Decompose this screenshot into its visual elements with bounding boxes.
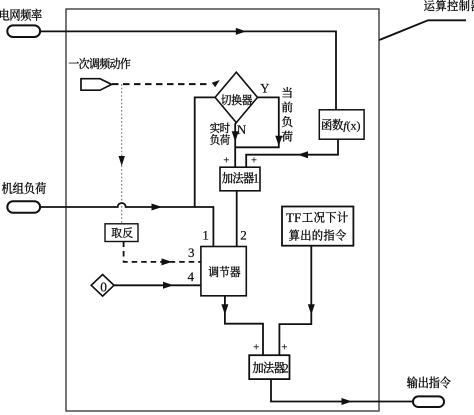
- block 取反 (negation): [105, 224, 138, 242]
- label 实时负荷: [210, 122, 220, 133]
- wire: 机组负荷 to 调节器 input 1 (hops over dotted wire): [40, 203, 213, 247]
- block TF工况下计算出的指令 (command computed under TF condition): [282, 207, 353, 246]
- svg-text:1: 1: [202, 228, 209, 243]
- constant diamond 0: [91, 275, 114, 297]
- wire: 加法器2 to 输出指令 terminal: [271, 379, 413, 401]
- svg-text:+: +: [251, 156, 257, 167]
- label 机组负荷: [2, 182, 12, 194]
- wire: 0 to 调节器 input 4: [114, 284, 201, 286]
- block 加法器1 (adder 1): [220, 167, 260, 191]
- svg-text:+: +: [223, 155, 229, 166]
- label 当前负荷 (vertical): [282, 87, 291, 98]
- label 运算控制器: [424, 0, 434, 11]
- switch diamond 切换器: [215, 72, 257, 122]
- wire: 函数f(x) output to 加法器1: [246, 139, 338, 167]
- wire: 加法器1 output to 调节器 input 2: [236, 191, 238, 247]
- svg-text:0: 0: [100, 280, 107, 295]
- svg-text:TF: TF: [286, 210, 301, 225]
- svg-text:2: 2: [240, 228, 247, 243]
- label 一次调频动作: [69, 62, 79, 63]
- flag terminal 一次调频动作 (primary frequency regulation action): [81, 79, 112, 91]
- leader line from 运算控制器 label to boundary: [379, 20, 466, 40]
- dotted wire: 一次调频动作 branch down to 取反: [121, 84, 123, 224]
- svg-text:3: 3: [188, 245, 195, 260]
- terminal oval 输出指令 (output command): [413, 396, 444, 407]
- wire: N branch 实时负荷 down to 加法器1: [235, 123, 236, 168]
- svg-text:4: 4: [188, 269, 195, 284]
- wire: 调节器 output to 加法器2 left input: [225, 296, 263, 355]
- wire: TF block output to 加法器2 right input: [279, 246, 311, 356]
- block 函数f(x): [319, 110, 364, 139]
- block 加法器2 (adder 2): [249, 355, 289, 379]
- dashed wire: 一次调频动作 to 切换器 control input: [112, 83, 211, 85]
- svg-text:1: 1: [253, 171, 259, 186]
- svg-text:f(x): f(x): [343, 118, 360, 132]
- svg-text:N: N: [237, 122, 247, 137]
- wire: 实时负荷 branch up to 切换器 left vertex: [195, 97, 215, 207]
- boundary box of 运算控制器 (computing controller outline): [66, 9, 379, 411]
- label 输出指令: [407, 376, 418, 388]
- svg-text:Y: Y: [260, 81, 269, 95]
- wire: 电网频率 to 函数f(x) input: [40, 31, 336, 109]
- terminal oval 电网频率 (grid frequency input): [7, 25, 40, 37]
- dashed wire: 取反 to 调节器 input 3: [124, 242, 201, 262]
- svg-text:2: 2: [282, 360, 289, 375]
- wire: Y branch 当前负荷 down to junction: [235, 97, 279, 147]
- svg-text:+: +: [281, 342, 287, 353]
- label 电网频率: [0, 9, 9, 21]
- block 调节器 (regulator): [201, 247, 246, 296]
- terminal oval 机组负荷 (unit load input): [7, 201, 40, 213]
- svg-text:+: +: [253, 342, 259, 353]
